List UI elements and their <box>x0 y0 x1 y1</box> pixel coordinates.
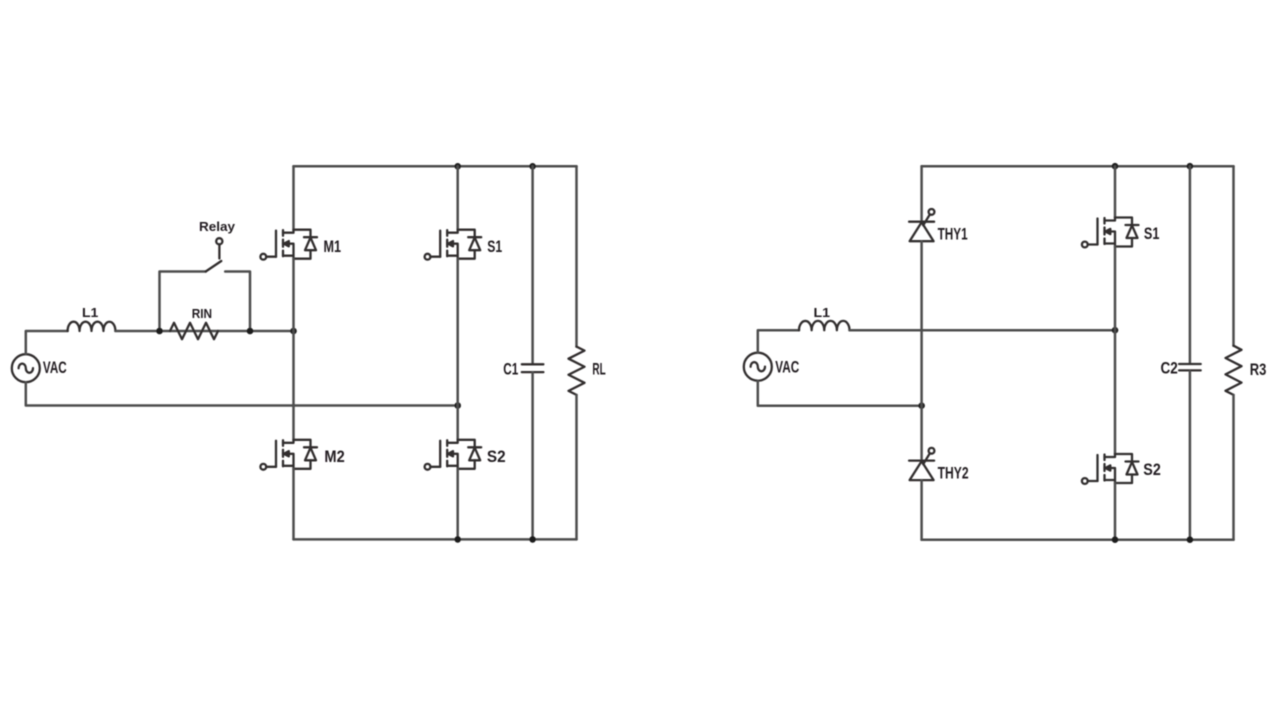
svg-text:L1: L1 <box>82 305 98 320</box>
AC source VAC (left) <box>12 354 40 382</box>
svg-text:VAC: VAC <box>43 359 67 377</box>
wire: L1 to left bridge midpoint <box>115 330 293 333</box>
capacitor C2 <box>1179 364 1201 370</box>
wire: relay branch right lead <box>225 272 250 332</box>
wire: C2 leg upper <box>1189 166 1192 363</box>
relay actuator terminal <box>216 238 222 244</box>
svg-text:S2: S2 <box>487 448 506 466</box>
svg-text:R3: R3 <box>1250 361 1267 379</box>
wire: FET-leg lower segment (right) <box>1114 483 1117 540</box>
wire: right VAC top lead <box>758 330 799 353</box>
transistor S1 (MOSFET, left) <box>425 230 482 260</box>
wire: R3 leg lower <box>1232 395 1235 540</box>
node: top rail / S1 drain junction (right) <box>1112 163 1119 170</box>
svg-text:RL: RL <box>592 361 605 379</box>
wire: right VAC return to THY-leg midpoint <box>758 381 922 406</box>
wire: left VAC top lead <box>26 331 68 354</box>
node: bottom rail / C1 junction (left) <box>529 536 536 543</box>
wire: R3 leg upper <box>1232 166 1235 346</box>
svg-text:RIN: RIN <box>192 306 212 321</box>
wire: left rail middle segment <box>292 259 295 440</box>
svg-text:C1: C1 <box>503 361 518 379</box>
node: top rail / C2 junction (right) <box>1187 163 1194 170</box>
inductor L1 (right) <box>799 321 850 330</box>
wire: relay branch left vertical <box>160 272 206 332</box>
wire: FET-leg middle segment (right) <box>1114 247 1117 455</box>
node: left S-leg midpoint junction <box>454 402 461 409</box>
svg-text:L1: L1 <box>814 305 831 320</box>
AC source VAC (right) <box>744 353 772 381</box>
wire: RL leg lower <box>575 395 578 540</box>
svg-text:THY1: THY1 <box>938 226 968 244</box>
svg-text:Relay: Relay <box>199 219 236 234</box>
wire: right bridge bottom rail <box>922 538 1234 541</box>
node: left bridge midpoint junction <box>290 328 297 335</box>
node: top rail / S1 drain junction (left) <box>454 163 461 170</box>
node: bottom rail / S2 source junction (left) <box>454 536 461 543</box>
thyristor THY2 <box>909 448 934 480</box>
wire: left VAC return to S-leg midpoint <box>26 382 458 405</box>
wire: left bridge top rail <box>294 165 577 168</box>
inductor L1 (left) <box>68 322 116 331</box>
relay actuator lead <box>218 244 220 258</box>
node: THY-leg midpoint junction <box>918 402 925 409</box>
wire: THY-leg lower segment <box>920 480 923 540</box>
wire: THY-leg middle segment <box>920 241 923 460</box>
svg-text:VAC: VAC <box>775 359 799 377</box>
wire: C1 leg upper <box>531 166 534 364</box>
wire: S-leg lower segment (left) <box>456 469 459 540</box>
wire: left rail lower segment <box>292 469 295 540</box>
wire: left bridge bottom rail <box>294 538 577 541</box>
svg-text:M1: M1 <box>324 238 342 256</box>
node: bottom rail / S2 source junction (right) <box>1112 536 1119 543</box>
node: bottom rail / C2 junction (right) <box>1187 536 1194 543</box>
svg-text:M2: M2 <box>324 448 344 466</box>
resistor RIN <box>170 323 218 339</box>
wire: FET-leg upper segment (right) <box>1114 166 1117 217</box>
relay switch contact arm <box>206 261 222 272</box>
svg-text:THY2: THY2 <box>938 465 969 483</box>
transistor S2 (MOSFET, left) <box>425 440 482 470</box>
node: RIN right junction <box>247 328 254 335</box>
svg-text:S2: S2 <box>1143 461 1161 479</box>
wire: THY-leg upper segment <box>920 166 923 222</box>
thyristor THY1 <box>909 209 934 241</box>
svg-text:C2: C2 <box>1161 359 1178 377</box>
transistor M1 (MOSFET) <box>260 230 317 260</box>
svg-text:S1: S1 <box>1144 225 1160 243</box>
node: RIN left junction <box>156 328 163 335</box>
resistor RL <box>569 347 585 395</box>
wire: right bridge top rail <box>922 165 1234 168</box>
wire: left rail upper segment <box>292 166 295 229</box>
resistor R3 <box>1226 346 1242 395</box>
capacitor C1 <box>522 364 544 372</box>
wire: C1 leg lower <box>531 372 534 539</box>
svg-text:S1: S1 <box>487 238 502 256</box>
wire: S-leg upper segment (left) <box>456 166 459 229</box>
wire: RL leg upper <box>575 166 578 346</box>
wire: S-leg middle segment (left) <box>456 259 459 440</box>
wire: C2 leg lower <box>1189 371 1192 540</box>
transistor M2 (MOSFET) <box>260 440 317 470</box>
transistor S2 (MOSFET, right) <box>1082 454 1139 484</box>
wire: L1 to FET-leg midpoint (right) <box>850 329 1116 332</box>
transistor S1 (MOSFET, right) <box>1082 218 1139 248</box>
node: FET-leg midpoint junction (right) <box>1112 327 1119 334</box>
node: top rail / C1 junction (left) <box>529 163 536 170</box>
